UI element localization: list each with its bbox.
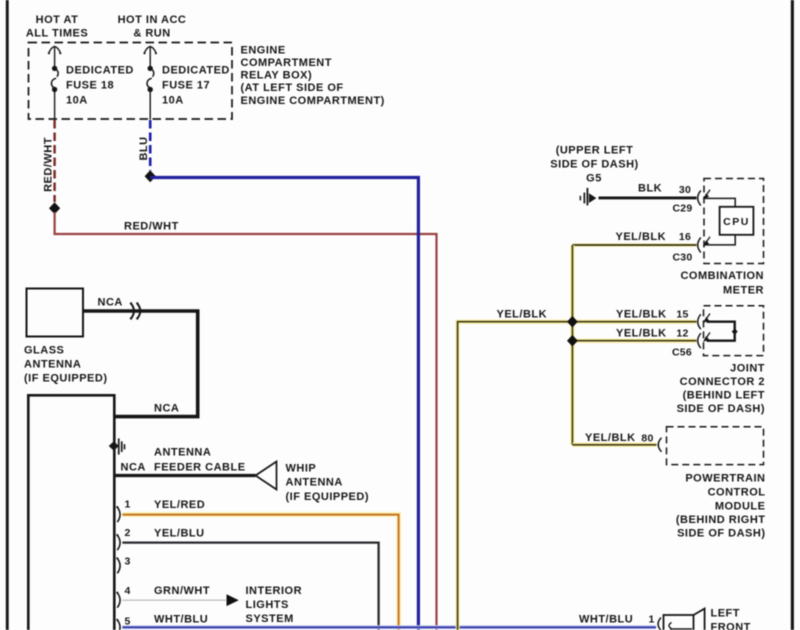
svg-text:HOT AT: HOT AT xyxy=(36,14,79,26)
label INTERIOR LIGHTS SYSTEM xyxy=(246,585,303,625)
svg-text:YEL/BLU: YEL/BLU xyxy=(154,528,205,540)
svg-text:RED/WHT: RED/WHT xyxy=(124,221,179,233)
label ANTENNA FEEDER CABLE xyxy=(121,447,246,474)
wire BLU solid xyxy=(150,178,418,630)
label WHT/BLU pin5 xyxy=(154,614,208,626)
svg-text:ANTENNA: ANTENNA xyxy=(154,447,211,459)
label COMBINATION METER xyxy=(680,270,764,297)
svg-text:JOINT: JOINT xyxy=(730,363,765,375)
wire RED/WHT solid xyxy=(55,212,437,630)
wire antenna feeder xyxy=(115,474,256,477)
svg-text:RELAY BOX): RELAY BOX) xyxy=(241,70,313,82)
svg-text:GRN/WHT: GRN/WHT xyxy=(154,585,210,597)
svg-text:FUSE 18: FUSE 18 xyxy=(66,80,114,92)
fuse F18 xyxy=(48,46,62,119)
wire YEL/BLU xyxy=(122,543,378,630)
label DEDICATED FUSE 18 10A xyxy=(66,65,134,107)
wire YEL/BLK horizontal from radio xyxy=(458,322,697,630)
svg-text:RED/WHT: RED/WHT xyxy=(43,137,55,192)
svg-text:DEDICATED: DEDICATED xyxy=(162,65,230,77)
whip antenna symbol xyxy=(256,462,277,490)
label WHT/BLU speaker 1 xyxy=(579,614,655,626)
label UPPER LEFT SIDE OF DASH G5 xyxy=(550,145,638,185)
wire YEL/RED xyxy=(122,515,398,630)
svg-text:SIDE OF DASH): SIDE OF DASH) xyxy=(677,403,765,415)
left page border xyxy=(6,0,9,630)
label DEDICATED FUSE 17 10A xyxy=(162,65,230,107)
combination meter dashed box xyxy=(704,179,764,264)
svg-text:COMBINATION: COMBINATION xyxy=(680,270,764,282)
connector C56 pin15 arc xyxy=(698,314,710,330)
right page border xyxy=(791,0,794,630)
svg-text:ANTENNA: ANTENNA xyxy=(286,477,343,489)
connector C29 arc xyxy=(698,190,710,206)
wire RED/WHT dashed xyxy=(53,120,55,202)
svg-text:10A: 10A xyxy=(66,95,88,107)
connector PCM arc xyxy=(658,438,661,452)
svg-text:C30: C30 xyxy=(673,252,693,264)
svg-text:YEL/BLK: YEL/BLK xyxy=(616,309,667,321)
svg-text:NCA: NCA xyxy=(121,462,146,474)
svg-text:ALL TIMES: ALL TIMES xyxy=(26,28,88,40)
svg-text:CONTROL: CONTROL xyxy=(708,487,766,499)
svg-text:YEL/RED: YEL/RED xyxy=(154,499,205,511)
label C56 xyxy=(672,347,692,359)
svg-text:NCA: NCA xyxy=(98,297,123,309)
ground G5 xyxy=(580,188,597,206)
junction dot yellow 1 xyxy=(567,316,578,328)
wire YEL/BLK to PCM xyxy=(572,443,656,447)
pin 2 bracket xyxy=(116,527,130,550)
svg-text:(BEHIND LEFT: (BEHIND LEFT xyxy=(683,390,765,402)
svg-text:(BEHIND RIGHT: (BEHIND RIGHT xyxy=(676,514,766,526)
svg-text:NCA: NCA xyxy=(154,403,179,415)
antenna jack connector xyxy=(109,438,126,454)
label WHIP ANTENNA (IF EQUIPPED) xyxy=(286,463,370,504)
svg-text:WHT/BLU: WHT/BLU xyxy=(154,614,208,626)
svg-text:HOT IN ACC: HOT IN ACC xyxy=(118,14,187,26)
svg-text:FUSE 17: FUSE 17 xyxy=(162,80,210,92)
wire BLK xyxy=(599,196,697,199)
svg-text:YEL/BLK: YEL/BLK xyxy=(585,432,636,444)
svg-text:DEDICATED: DEDICATED xyxy=(66,65,134,77)
svg-text:WHIP: WHIP xyxy=(286,463,317,475)
svg-text:4: 4 xyxy=(125,585,131,597)
speaker left front xyxy=(664,609,705,630)
svg-text:COMPARTMENT: COMPARTMENT xyxy=(241,57,332,69)
label YEL/BLK 15 xyxy=(616,309,689,321)
svg-text:CPU: CPU xyxy=(723,216,750,228)
svg-text:80: 80 xyxy=(641,433,653,445)
CPU box xyxy=(720,207,754,235)
pin 5 bracket xyxy=(116,616,130,630)
label C30 xyxy=(673,252,693,264)
svg-text:(IF EQUIPPED): (IF EQUIPPED) xyxy=(286,491,370,503)
svg-text:12: 12 xyxy=(676,328,688,340)
label YEL/BLK 16 xyxy=(616,231,692,243)
svg-text:ENGINE COMPARTMENT): ENGINE COMPARTMENT) xyxy=(241,95,385,107)
svg-text:G5: G5 xyxy=(586,173,602,185)
junction dot RED xyxy=(49,202,60,214)
wire pin16 to CPU xyxy=(704,235,735,245)
junction dot yellow 2 xyxy=(567,335,578,347)
joint connector dashed box xyxy=(704,306,764,356)
svg-text:30: 30 xyxy=(679,184,691,196)
wire YEL/BLK to C30 xyxy=(572,243,696,246)
fuse F17 xyxy=(143,46,157,119)
svg-text:15: 15 xyxy=(676,309,688,321)
label RED/WHT vertical xyxy=(43,137,55,192)
label NCA 1 xyxy=(98,297,123,309)
svg-text:ENGINE: ENGINE xyxy=(241,45,286,57)
label YEL/BLU xyxy=(154,528,205,540)
svg-text:16: 16 xyxy=(679,231,691,243)
connector C56 pin12 arc xyxy=(698,333,710,349)
label HOT AT ALL TIMES xyxy=(26,14,88,40)
svg-text:FRONT: FRONT xyxy=(711,622,751,630)
label LEFT FRONT xyxy=(711,608,751,630)
label NCA 2 xyxy=(154,403,179,415)
svg-text:CONNECTOR 2: CONNECTOR 2 xyxy=(680,376,765,388)
svg-text:C29: C29 xyxy=(673,203,693,215)
svg-text:2: 2 xyxy=(125,527,131,539)
svg-text:C56: C56 xyxy=(672,347,692,359)
svg-text:& RUN: & RUN xyxy=(133,28,170,40)
label POWERTRAIN CONTROL MODULE xyxy=(676,473,766,540)
svg-text:INTERIOR: INTERIOR xyxy=(246,585,303,597)
label YEL/BLK 80 xyxy=(585,432,654,445)
wire pin30 to CPU xyxy=(704,198,735,206)
wire WHT/BLU xyxy=(122,625,656,629)
label GLASS ANTENNA (IF EQUIPPED) xyxy=(24,345,108,385)
junction dot BLU xyxy=(145,170,156,182)
inline connector )) xyxy=(130,302,140,319)
radio box xyxy=(28,395,114,630)
glass antenna box xyxy=(27,289,84,337)
svg-text:MODULE: MODULE xyxy=(715,501,766,513)
svg-text:POWERTRAIN: POWERTRAIN xyxy=(685,473,765,485)
relay box (dashed) xyxy=(29,43,233,120)
wire glass antenna NCA xyxy=(83,311,198,417)
svg-text:1: 1 xyxy=(125,499,131,511)
joint connector bus bar xyxy=(707,322,738,341)
svg-text:SYSTEM: SYSTEM xyxy=(246,613,294,625)
label BLK 30 xyxy=(638,183,691,196)
label C29 xyxy=(673,203,693,215)
label YEL/BLK 12 xyxy=(616,328,689,340)
label RED/WHT horizontal xyxy=(124,221,179,233)
wire GRN/WHT xyxy=(122,599,226,601)
svg-text:3: 3 xyxy=(125,556,131,568)
arrow to interior lights xyxy=(227,594,239,606)
label BLU vertical xyxy=(138,136,150,160)
label HOT IN ACC & RUN xyxy=(118,14,187,40)
label JOINT CONNECTOR 2 xyxy=(677,363,765,416)
label ENGINE COMPARTMENT RELAY BOX xyxy=(241,45,385,108)
svg-text:BLU: BLU xyxy=(138,136,150,160)
svg-text:YEL/BLK: YEL/BLK xyxy=(616,231,667,243)
pin 4 bracket xyxy=(116,585,130,608)
label YEL/BLK mid xyxy=(497,309,548,321)
label GRN/WHT xyxy=(154,585,210,597)
connector C30 arc xyxy=(698,237,710,253)
svg-text:YEL/BLK: YEL/BLK xyxy=(497,309,548,321)
pin 1 bracket xyxy=(116,499,130,523)
svg-text:YEL/BLK: YEL/BLK xyxy=(616,328,667,340)
svg-text:(AT LEFT SIDE OF: (AT LEFT SIDE OF xyxy=(241,82,344,94)
wire YEL/BLK to C56 pin 12 xyxy=(572,339,696,343)
connector speaker arc xyxy=(658,618,661,630)
svg-text:GLASS: GLASS xyxy=(24,345,64,357)
svg-text:BLK: BLK xyxy=(638,183,662,195)
svg-text:10A: 10A xyxy=(162,95,184,107)
svg-text:1: 1 xyxy=(648,614,654,626)
powertrain control module dashed box xyxy=(667,427,764,465)
svg-text:(IF EQUIPPED): (IF EQUIPPED) xyxy=(24,373,108,385)
wire YEL/BLK vertical bus xyxy=(570,245,574,445)
svg-text:SIDE OF DASH): SIDE OF DASH) xyxy=(677,528,765,540)
svg-text:(UPPER LEFT: (UPPER LEFT xyxy=(556,145,634,157)
svg-text:SIDE OF DASH): SIDE OF DASH) xyxy=(550,159,638,171)
label YEL/RED xyxy=(154,499,205,511)
svg-text:WHT/BLU: WHT/BLU xyxy=(579,614,633,626)
svg-text:ANTENNA: ANTENNA xyxy=(24,359,81,371)
wire BLU dashed xyxy=(149,120,152,171)
svg-text:LIGHTS: LIGHTS xyxy=(246,599,289,611)
svg-text:FEEDER CABLE: FEEDER CABLE xyxy=(154,462,246,474)
pin 3 bracket xyxy=(116,556,130,574)
svg-text:LEFT: LEFT xyxy=(711,608,741,620)
svg-text:METER: METER xyxy=(723,285,764,297)
